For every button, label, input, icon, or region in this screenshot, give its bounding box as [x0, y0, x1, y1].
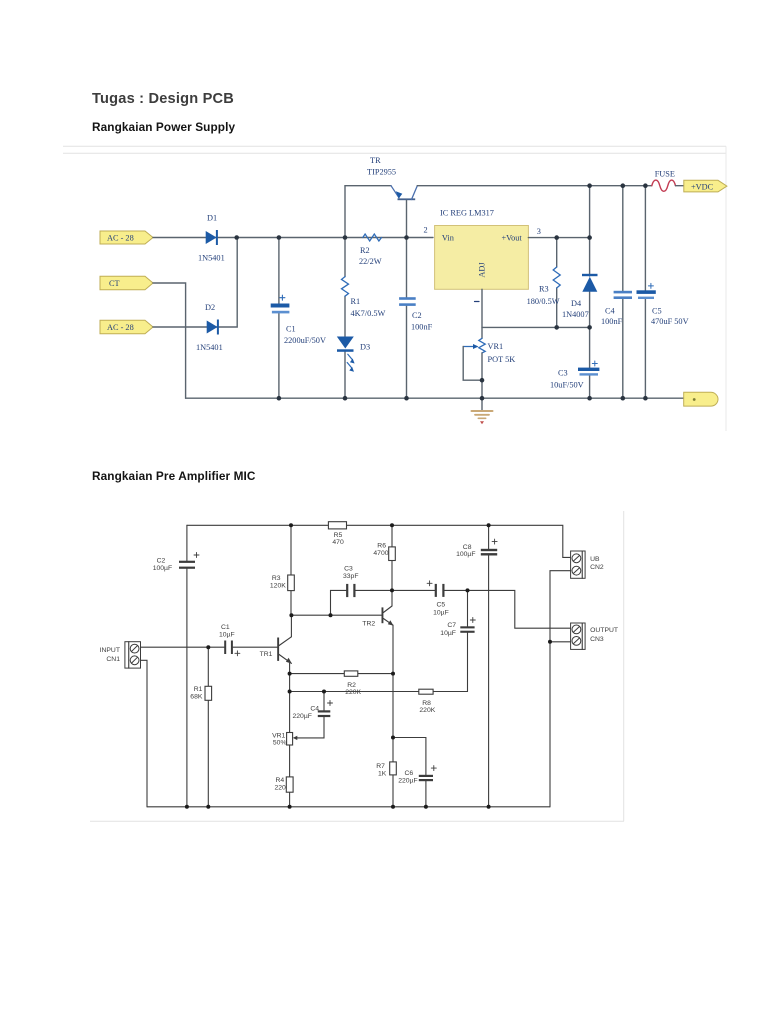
svg-text:TIP2955: TIP2955 [367, 168, 396, 177]
junction bottom rail R1 [206, 805, 210, 809]
pin 1 label [475, 301, 480, 303]
junction TR1 emitter R2 [288, 672, 292, 676]
potentiometer VR1 [464, 338, 485, 353]
svg-text:10µF: 10µF [433, 609, 449, 616]
junction TR2 collector C3/C5 [390, 588, 394, 592]
wire top supply rail left of R5 [187, 524, 329, 526]
svg-text:UB: UB [590, 556, 600, 563]
svg-text:AC - 28: AC - 28 [107, 234, 134, 243]
PREAMP-IMAGE-BORDERS [90, 511, 624, 821]
junction top rail C4 branch [621, 183, 626, 188]
op-amp U1 regulator LM317 body [435, 226, 529, 290]
junction bottom rail C1 [277, 396, 282, 401]
junction ADJ D4 [587, 325, 592, 330]
junction top rail D4 branch [587, 183, 592, 188]
svg-text:2200uF/50V: 2200uF/50V [284, 336, 326, 345]
wire ADJ horizontal [482, 326, 590, 328]
wire C3 branch from node [331, 590, 347, 615]
net label AC-28 (top) [100, 231, 153, 244]
resistor R3 [553, 267, 560, 288]
wire VR1 wiper loop [463, 347, 482, 381]
net label +VDC [684, 180, 727, 192]
svg-text:TR2: TR2 [362, 621, 375, 628]
wire C5 vertical branch [644, 186, 646, 399]
capacitor C5 [637, 283, 656, 299]
svg-text:R4: R4 [276, 777, 285, 784]
svg-text:1N4007: 1N4007 [562, 310, 589, 319]
junction top rail R3 [289, 523, 293, 527]
junction ADJ R3 [554, 325, 559, 330]
wire top rail collector to fuse [417, 185, 652, 187]
capacitor C3 [346, 584, 355, 597]
junction top rail C8 [487, 523, 491, 527]
resistor R4 [286, 777, 293, 792]
junction R1-main rail [343, 235, 348, 240]
wire R1 branch [207, 647, 209, 807]
resistor R8 [419, 689, 433, 694]
wire R8 feedback [290, 691, 468, 693]
svg-text:CN1: CN1 [106, 656, 120, 663]
wire R1/D3 vertical branch [344, 186, 346, 399]
junction VR1 wiper [480, 378, 485, 383]
junction C3 branch node [329, 613, 333, 617]
junction TR2 emitter R2 [391, 672, 395, 676]
capacitor C7 [460, 618, 475, 633]
junction bottom rail C2 [404, 396, 409, 401]
svg-text:C3: C3 [344, 566, 353, 573]
svg-text:22/2W: 22/2W [359, 257, 382, 266]
svg-text:220µF: 220µF [398, 778, 417, 785]
transistor TR2 [382, 606, 394, 626]
diode D2 [207, 320, 219, 335]
wire CN3 pin2 to ground line [550, 641, 571, 643]
wire TR2 emitter down [392, 625, 394, 807]
diode D1 [206, 230, 218, 245]
junction Vout R3 [554, 235, 559, 240]
capacitor C4 [318, 701, 333, 718]
svg-text:100nF: 100nF [411, 323, 433, 332]
svg-text:C7: C7 [447, 622, 456, 629]
wire top supply rail right of R5 to CN2 pin1 [347, 525, 571, 557]
wire C3 to TR2 collector line [356, 589, 435, 591]
capacitor C8 [481, 539, 497, 555]
wire CT branch down to bottom rail [153, 283, 186, 398]
wire C4 vertical branch [622, 186, 624, 399]
svg-text:R7: R7 [376, 763, 385, 770]
resistor R2 [363, 234, 382, 241]
svg-text:100µF: 100µF [153, 565, 172, 572]
svg-text:10µF: 10µF [219, 632, 235, 639]
wire fuse to +VDC label [676, 185, 684, 187]
wire ADJ pin down [481, 289, 483, 338]
svg-text:Vin: Vin [442, 234, 455, 243]
svg-text:VR1: VR1 [272, 732, 285, 739]
svg-text:2: 2 [424, 226, 428, 235]
junction TR1 emitter R8 [288, 690, 292, 694]
junction C1-main rail [277, 235, 282, 240]
svg-text:100µF: 100µF [456, 551, 475, 558]
wire C7 branch [467, 590, 469, 691]
svg-text:TR: TR [370, 156, 381, 165]
PSU-IMAGE-BORDERS [63, 146, 726, 431]
svg-text:D4: D4 [571, 299, 582, 308]
junction input R1 [206, 645, 210, 649]
net label CT [100, 276, 153, 289]
connector CN3 [571, 623, 586, 649]
svg-text:CN2: CN2 [590, 564, 604, 571]
resistor R1 [205, 686, 212, 700]
LED D3 [337, 337, 355, 372]
svg-text:C5: C5 [437, 601, 446, 608]
svg-text:50%: 50% [273, 740, 287, 747]
resistor R2 [344, 671, 358, 676]
svg-text:3: 3 [537, 227, 541, 236]
svg-text:R3: R3 [539, 285, 549, 294]
svg-text:C2: C2 [157, 558, 166, 565]
capacitor C3 [578, 361, 599, 376]
junction bottom rail R4 [288, 805, 292, 809]
wire left rail with C2 [186, 525, 188, 807]
transistor TR1 [277, 637, 292, 664]
junction bottom rail C4 [621, 396, 626, 401]
PSU-PLACEHOLDER [100, 156, 727, 424]
svg-text:R2: R2 [360, 246, 370, 255]
wire TR1 collector node to TR2 base [291, 614, 381, 616]
resistor R5 [328, 522, 346, 529]
svg-text:D2: D2 [205, 303, 215, 312]
junction TR base-main rail [404, 235, 409, 240]
junction bottom rail C3 [587, 396, 592, 401]
svg-text:R1: R1 [351, 297, 361, 306]
junction bottom rail C6 [424, 805, 428, 809]
diode D4 [582, 274, 598, 292]
junction bottom rail C5 [643, 396, 648, 401]
wire C5 to CN3 pin1 [445, 590, 571, 628]
connector CN1 [125, 642, 141, 668]
capacitor C2 [399, 297, 416, 306]
svg-text:INPUT: INPUT [100, 647, 120, 654]
svg-text:+Vout: +Vout [502, 234, 523, 243]
svg-text:220µF: 220µF [293, 713, 312, 720]
capacitor C6 [419, 766, 437, 782]
wire input signal to C1 [141, 646, 225, 648]
svg-text:CN3: CN3 [590, 636, 604, 643]
junction bottom rail D3 [343, 396, 348, 401]
svg-text:D1: D1 [207, 214, 217, 223]
wire R2 horizontal [290, 673, 393, 675]
wire R6 branch / TR2 collector [391, 525, 393, 606]
junction top rail C5 branch [643, 183, 648, 188]
svg-text:POT 5K: POT 5K [488, 355, 516, 364]
resistor R3 [288, 575, 295, 591]
wire R3 branch [290, 525, 292, 615]
wire C1 vertical branch [278, 238, 280, 399]
wire VR1 bottom to ground rail [481, 353, 483, 398]
svg-text:10uF/50V: 10uF/50V [550, 381, 584, 390]
wire bottom ground rail [186, 397, 684, 399]
capacitor C1 [271, 295, 290, 313]
svg-text:VR1: VR1 [488, 342, 504, 351]
svg-text:CT: CT [109, 279, 120, 288]
wire R3 vertical branch [556, 238, 558, 328]
junction D2-main rail [234, 235, 239, 240]
svg-text:220K: 220K [345, 689, 361, 696]
capacitor C4 [614, 291, 632, 299]
svg-text:TR1: TR1 [260, 651, 273, 658]
svg-text:220K: 220K [419, 707, 435, 714]
svg-text:120K: 120K [270, 582, 286, 589]
junction bottom rail C8 [487, 805, 491, 809]
svg-text:C4: C4 [605, 307, 616, 316]
junction bottom rail C2 [185, 805, 189, 809]
junction top rail R6 [390, 523, 394, 527]
svg-text:1N5401: 1N5401 [196, 343, 223, 352]
svg-text:C1: C1 [286, 325, 296, 334]
svg-text:+VDC: +VDC [691, 183, 714, 192]
svg-text:AC - 28: AC - 28 [107, 323, 134, 332]
junction TR2 emitter C6 [391, 736, 395, 740]
wire Vout output [528, 237, 589, 239]
svg-text:R3: R3 [272, 575, 281, 582]
svg-text:D3: D3 [360, 343, 370, 352]
svg-text:1K: 1K [378, 770, 387, 777]
junction Vout D4 [587, 235, 592, 240]
wire C2 vertical branch [406, 238, 408, 399]
transistor TR TIP2955 [391, 186, 417, 201]
svg-text:R1: R1 [194, 686, 203, 693]
wire CN2 pin2 ground [550, 571, 571, 807]
resistor R7 [390, 762, 397, 775]
wire C6 branch [393, 738, 426, 807]
svg-text:180/0.5W: 180/0.5W [527, 297, 560, 306]
svg-text:C6: C6 [405, 770, 414, 777]
junction CN3 pin2 ground line [548, 640, 552, 644]
wire TR1 collector up to node [290, 615, 292, 637]
net label AC-28 (bottom) [100, 320, 153, 333]
svg-text:R6: R6 [377, 542, 386, 549]
wire TR base down to rail [406, 200, 408, 237]
svg-text:470: 470 [332, 539, 344, 546]
svg-text:C5: C5 [652, 307, 662, 316]
wire bottom ground rail [147, 806, 550, 808]
potentiometer VR1 preamp [287, 733, 298, 746]
svg-text:ADJ: ADJ [478, 262, 487, 278]
junction TR1 collector node [289, 613, 293, 617]
svg-text:220: 220 [275, 784, 287, 791]
wire TR1 emitter down chain [289, 663, 291, 807]
connector CN2 [571, 551, 586, 578]
capacitor C1 [224, 641, 240, 656]
svg-text:10µF: 10µF [440, 630, 456, 637]
capacitor C5 [427, 581, 444, 597]
svg-text:C2: C2 [412, 311, 422, 320]
wire AC-28 bottom through D2 up to main rail [153, 238, 237, 328]
svg-text:100nF: 100nF [601, 317, 623, 326]
svg-text:4700: 4700 [373, 550, 388, 557]
wire top emitter rail [345, 185, 391, 187]
svg-text:FUSE: FUSE [655, 170, 675, 179]
fuse F1 [652, 180, 676, 191]
ground [472, 398, 493, 424]
svg-text:33pF: 33pF [343, 573, 359, 580]
junction bottom rail ground [480, 396, 485, 401]
junction C4 branch [322, 690, 326, 694]
wire AC-28 top to Vin (main input rail) [153, 237, 433, 239]
svg-text:C4: C4 [310, 706, 319, 713]
svg-text:68K: 68K [190, 693, 203, 700]
wire C4 branch [298, 692, 324, 738]
junction C7 top node [466, 588, 470, 592]
capacitor C2 [179, 553, 199, 569]
wire D4/C3 vertical branch [589, 186, 591, 399]
svg-text:1N5401: 1N5401 [198, 254, 225, 263]
svg-text:470uF 50V: 470uF 50V [651, 317, 689, 326]
wire C1 to TR1 base [233, 646, 277, 648]
net label negative output [684, 392, 718, 406]
PREAMP-PLACEHOLDER [100, 522, 618, 809]
svg-text:C1: C1 [221, 624, 230, 631]
svg-text:OUTPUT: OUTPUT [590, 627, 618, 634]
svg-text:IC REG LM317: IC REG LM317 [440, 209, 494, 218]
svg-text:C3: C3 [558, 369, 568, 378]
svg-text:4K7/0.5W: 4K7/0.5W [351, 309, 386, 318]
junction bottom rail R7 [391, 805, 395, 809]
wire C8 branch [488, 525, 490, 807]
resistor R1 [342, 277, 349, 297]
wire CN1 pin2 to bottom rail [141, 660, 148, 807]
resistor R6 [389, 547, 396, 561]
